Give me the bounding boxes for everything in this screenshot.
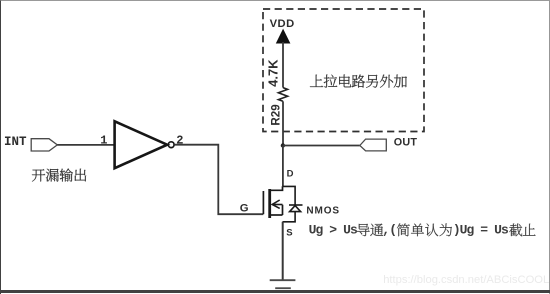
wire INT to inverter pin 1 (57, 144, 113, 146)
wire inverter output to gate (174, 145, 263, 215)
svg-text:G: G (240, 202, 249, 214)
annotation: Ug > Us 导通,(简单认为) Ug = Us 截止 (309, 223, 536, 238)
ground (270, 280, 296, 288)
wire resistor to drain node (282, 101, 284, 145)
wire VDD to resistor (282, 42, 284, 88)
label 上拉电路另外加 (pull-up circuit added externally) (310, 75, 407, 88)
wire node to OUT connector (283, 145, 360, 147)
svg-text:S: S (286, 228, 292, 239)
svg-text:INT: INT (4, 135, 27, 149)
svg-text:Ug = Us: Ug = Us (460, 223, 509, 238)
svg-text:D: D (287, 169, 294, 180)
svg-text:Ug > Us: Ug > Us (309, 223, 358, 238)
body diode (283, 186, 303, 221)
svg-text:4.7K: 4.7K (266, 59, 281, 87)
dashed box: pull-up circuit (263, 9, 424, 132)
wire source to ground (282, 222, 284, 280)
svg-text:R29: R29 (269, 104, 282, 126)
node junction (drain/out) (281, 143, 285, 147)
connector OUT (360, 139, 387, 151)
inverter U1 (115, 121, 175, 168)
svg-text:1: 1 (100, 134, 107, 148)
svg-text:NMOS: NMOS (306, 205, 340, 216)
svg-text:VDD: VDD (270, 18, 295, 30)
svg-text:,(: ,( (382, 223, 396, 238)
connector INT (31, 139, 57, 151)
resistor R29 zigzag (278, 88, 287, 102)
transistor Q1 NMOS (263, 186, 282, 218)
VDD arrow symbol (277, 30, 290, 43)
svg-text:OUT: OUT (394, 137, 418, 149)
wire node to drain (282, 146, 284, 187)
label 开漏输出 (open-drain output) (32, 169, 86, 182)
svg-text:https://blog.csdn.net/ABCisCOO: https://blog.csdn.net/ABCisCOOL (383, 274, 549, 286)
